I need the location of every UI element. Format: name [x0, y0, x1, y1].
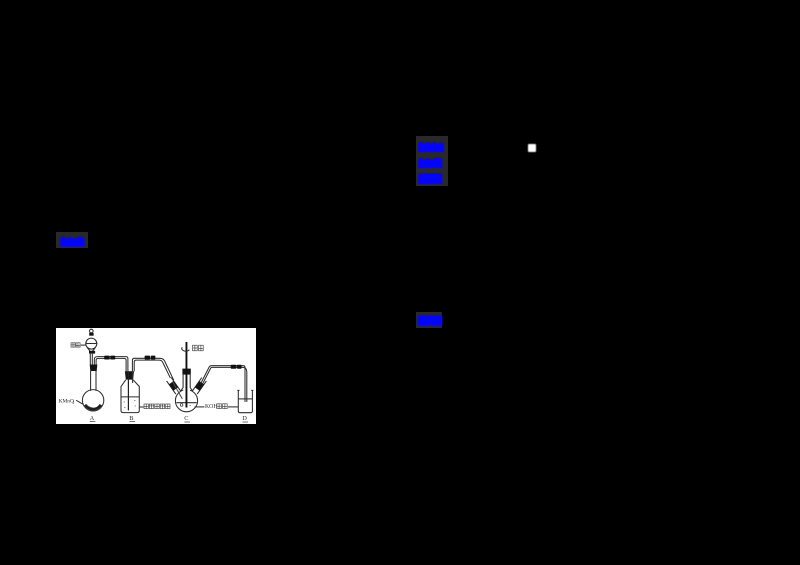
svg-text:KOH: KOH: [205, 404, 218, 410]
svg-text:A: A: [90, 415, 95, 422]
svg-text:4: 4: [72, 401, 74, 405]
svg-text:C: C: [184, 415, 188, 422]
svg-text:B: B: [129, 415, 133, 422]
svg-text:D: D: [242, 415, 247, 422]
